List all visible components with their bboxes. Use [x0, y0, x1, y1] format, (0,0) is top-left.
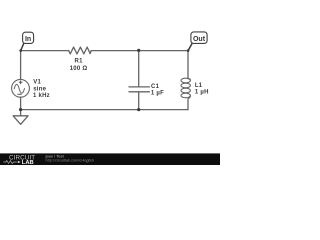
wire top-left vertical (source top to In corner)	[20, 51, 22, 80]
svg-text:http://circuitlab.com/c/4qg6dr: http://circuitlab.com/c/4qg6dr	[46, 158, 95, 162]
svg-text:R1: R1	[75, 59, 84, 65]
flag Out	[187, 32, 207, 52]
wire right vertical upper (Out corner to inductor)	[187, 51, 189, 79]
logo wire zigzag	[3, 161, 16, 164]
wire capacitor branch lower	[138, 92, 140, 110]
node junction dot bottom (C1 tap)	[137, 108, 140, 111]
svg-text:In: In	[25, 36, 31, 43]
inductor L1	[181, 78, 190, 99]
svg-text:L1: L1	[195, 83, 203, 89]
labels	[33, 59, 209, 100]
svg-text:sine: sine	[33, 86, 46, 92]
footer bar	[0, 153, 220, 165]
svg-text:LAB: LAB	[22, 160, 34, 165]
wire source bottom	[20, 97, 22, 109]
wire right vertical lower	[187, 100, 189, 110]
voltage source V1	[12, 79, 30, 97]
svg-text:100 Ω: 100 Ω	[70, 66, 88, 72]
flag In	[19, 32, 33, 52]
node junction dot top (C1 tap)	[137, 49, 140, 52]
wire bottom horizontal	[21, 109, 188, 111]
svg-text:C1: C1	[151, 84, 160, 90]
svg-text:1 µH: 1 µH	[195, 90, 209, 96]
capacitor C1	[129, 87, 149, 92]
svg-text:Out: Out	[193, 36, 206, 43]
wire top horizontal right segment	[91, 50, 188, 52]
resistor R1	[69, 47, 92, 54]
node junction dot source/ground	[19, 108, 22, 111]
ground	[13, 110, 28, 125]
logo arrow	[18, 161, 21, 163]
wire top horizontal left segment	[21, 50, 69, 52]
wire capacitor branch upper	[138, 51, 140, 87]
svg-text:V1: V1	[33, 80, 41, 86]
svg-text:1 µF: 1 µF	[151, 90, 164, 96]
svg-text:1 kHz: 1 kHz	[33, 93, 50, 99]
